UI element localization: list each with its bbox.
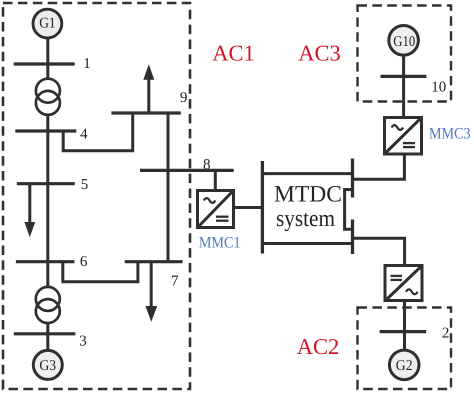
MTDC right lower bus bar [351,220,354,255]
wire MTDC lower bar to converter MMC2 [353,238,405,265]
generator G10 [389,26,419,56]
svg-text:G10: G10 [393,34,415,50]
MTDC right upper bus bar [351,159,354,198]
generator G3 [33,350,62,379]
bus 10 [381,75,427,78]
converter MMC1 [198,191,234,228]
wire bus 1 to transformer T1 [46,64,49,80]
bus 1 [14,62,75,65]
svg-text:system: system [276,206,335,232]
generator G1 [33,9,62,38]
MTDC bottom wire [262,242,352,245]
load arrow at bus 5 (downward) [24,184,35,238]
MTDC system text [274,181,342,232]
wire MMC3 to bus 10 and G10 [402,56,405,118]
bus 7 [125,260,183,263]
transformer T2 [36,287,60,323]
bus 2 [380,330,427,333]
AC1 region dashed boundary [3,3,190,389]
bus 6 [16,260,75,263]
svg-text:1: 1 [83,56,91,72]
load arrow at bus 9 (upward) [143,64,154,113]
svg-text:MTDC: MTDC [274,181,342,207]
bus 3 [14,332,76,335]
AC3 region dashed boundary [358,6,452,102]
MTDC left bus bar [261,161,264,254]
wire bus 8 to MMC1 [214,170,217,190]
svg-text:MMC1: MMC1 [199,235,241,252]
svg-text:G3: G3 [39,358,56,374]
wire bus 6 to transformer T2 [46,262,49,288]
bus 9 [111,111,180,114]
wire bus 9 to bus 7 through bus 8 [167,113,170,262]
svg-text:AC1: AC1 [212,41,255,66]
bus 8 [140,169,234,172]
svg-text:3: 3 [79,333,87,349]
wire G1 to bus 1 [46,38,49,64]
wire transformer T1 to bus 4 and down through bus 5 to bus 6 [46,114,49,262]
svg-text:8: 8 [203,157,211,173]
converter MMC3 [385,118,422,155]
wire MTDC upper bar to MMC3 [353,154,405,179]
AC2 region dashed boundary [358,308,452,390]
load arrow at bus 7 (downward) [145,262,157,322]
wire MMC1 to MTDC left bar [234,206,263,209]
MTDC top wire [262,172,352,175]
bus 4 [15,129,76,132]
svg-text:2: 2 [442,326,450,342]
svg-text:G1: G1 [39,16,55,32]
svg-text:G2: G2 [396,358,413,374]
transformer T1 [36,79,60,115]
svg-text:6: 6 [80,254,88,270]
svg-text:5: 5 [81,177,89,193]
svg-text:AC3: AC3 [298,41,341,66]
svg-text:AC2: AC2 [297,334,340,359]
svg-text:4: 4 [80,127,88,143]
wire bus 6 to bus 7 (U link) [63,262,138,282]
svg-text:7: 7 [171,273,179,289]
wire transformer T2 to bus 3 and G3 [46,322,49,351]
svg-text:9: 9 [180,90,188,106]
wire bus 4 to bus 9 (staircase link) [63,113,133,151]
wire MMC2 to bus 2 and G2 [403,301,406,351]
converter MMC2 (AC2 side) [385,266,422,301]
svg-text:10: 10 [431,79,446,95]
generator G2 [389,350,419,380]
MTDC right bracket [345,190,353,230]
bus 5 [17,182,75,185]
svg-text:MMC3: MMC3 [429,126,471,143]
